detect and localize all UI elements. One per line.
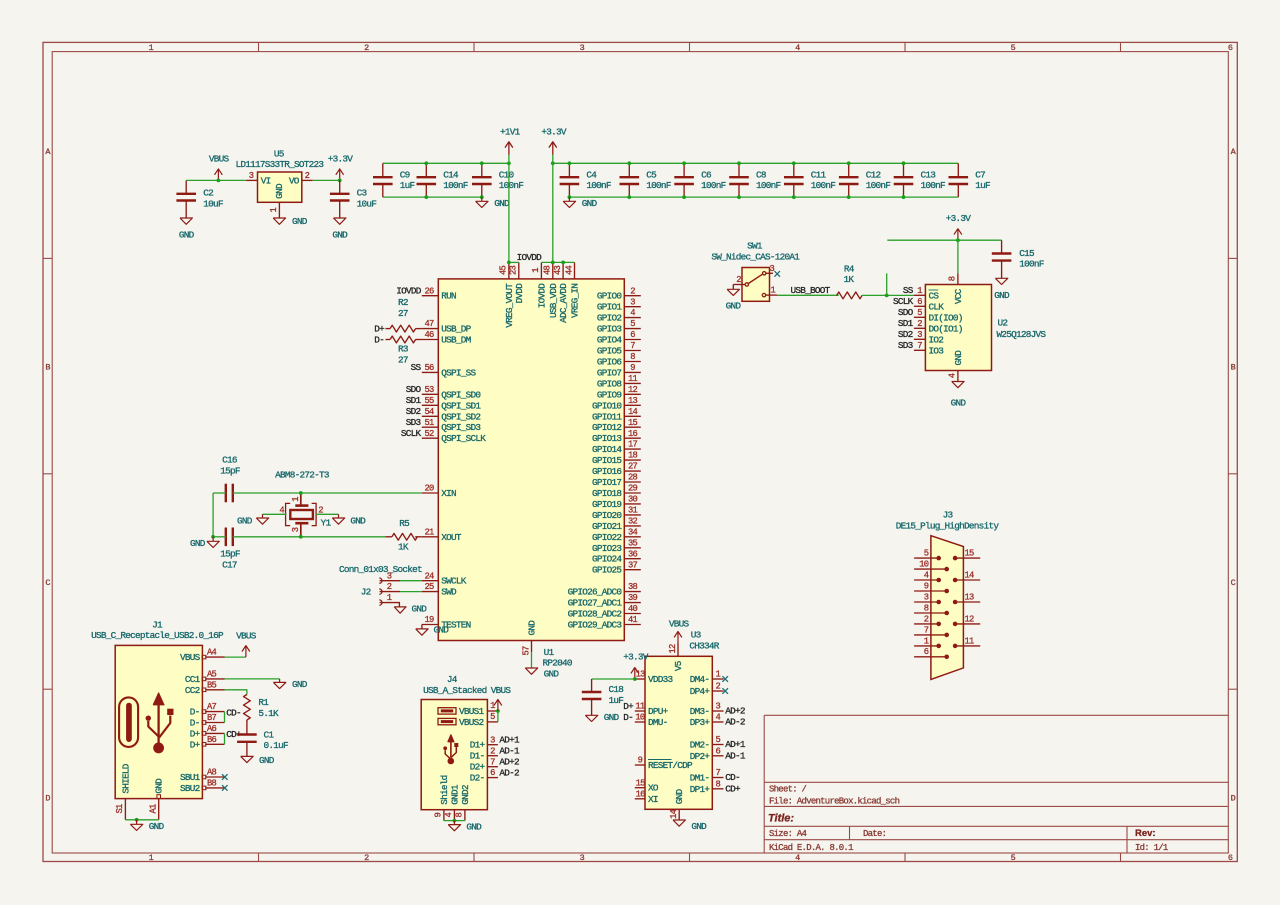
svg-text:Title:: Title: bbox=[768, 813, 794, 825]
pin 9 U3 RESET/CDP bbox=[635, 756, 693, 771]
ground TESTEN bbox=[416, 625, 450, 636]
svg-text:4: 4 bbox=[795, 853, 800, 863]
svg-text:SBU1: SBU1 bbox=[180, 772, 201, 783]
pin 31 U1 GPIO20 bbox=[592, 506, 641, 521]
pin 2 SW1 bbox=[733, 275, 745, 289]
svg-text:GPIO7: GPIO7 bbox=[597, 367, 622, 378]
svg-text:1K: 1K bbox=[844, 274, 855, 285]
usb plug icon 1 bbox=[438, 708, 456, 714]
ground SW1 bbox=[726, 289, 742, 311]
pin 12 U3 V5 bbox=[668, 643, 684, 671]
svg-text:CLK: CLK bbox=[929, 301, 945, 312]
column labels bbox=[149, 43, 1233, 863]
no-connect bbox=[722, 676, 728, 682]
svg-text:DE15_Plug_HighDensity: DE15_Plug_HighDensity bbox=[896, 521, 1000, 532]
ground U1 bbox=[525, 668, 559, 680]
pin 26 U1 RUN bbox=[422, 286, 456, 301]
svg-text:DPU+: DPU+ bbox=[648, 706, 669, 717]
wire bbox=[315, 513, 338, 515]
svg-text:SW1: SW1 bbox=[747, 240, 763, 251]
svg-text:43: 43 bbox=[553, 266, 563, 276]
junction bbox=[956, 238, 960, 242]
svg-text:J2: J2 bbox=[361, 586, 371, 597]
svg-text:SHIELD: SHIELD bbox=[120, 763, 131, 793]
power VBUS bbox=[491, 685, 512, 711]
pin 14 U3 GND bbox=[669, 789, 685, 820]
capacitor C1 bbox=[237, 729, 288, 756]
svg-text:1uF: 1uF bbox=[400, 180, 415, 191]
junction bbox=[507, 261, 511, 265]
connector J4 USB_A_Stacked body bbox=[421, 700, 487, 810]
junction bbox=[211, 535, 215, 539]
pin 9 J4 Shield bbox=[434, 775, 450, 820]
svg-text:Y1: Y1 bbox=[321, 517, 332, 528]
svg-text:U5: U5 bbox=[274, 148, 285, 159]
pin 15 U1 GPIO12 bbox=[592, 418, 641, 433]
svg-text:2: 2 bbox=[364, 43, 369, 53]
svg-text:IOVDD: IOVDD bbox=[517, 252, 543, 263]
pin 4 Y1 bbox=[279, 505, 284, 515]
column ticks bbox=[259, 42, 1121, 861]
pin A8 J1 SBU1 bbox=[180, 768, 225, 783]
usb trident icon J1 bbox=[146, 693, 174, 754]
svg-text:4: 4 bbox=[444, 812, 454, 817]
lead C8 bbox=[738, 163, 740, 197]
svg-text:IOVDD: IOVDD bbox=[536, 283, 547, 309]
row labels bbox=[45, 147, 1236, 804]
svg-text:GND: GND bbox=[994, 290, 1010, 301]
svg-text:1: 1 bbox=[291, 497, 301, 502]
svg-text:J1: J1 bbox=[152, 619, 163, 630]
svg-text:GPIO20: GPIO20 bbox=[592, 510, 622, 521]
svg-text:12: 12 bbox=[668, 644, 678, 654]
pin 6 J4 D2- bbox=[470, 768, 498, 783]
lead C14 bbox=[425, 163, 427, 197]
svg-text:Date:: Date: bbox=[863, 829, 886, 839]
pin 2 J4 D1- bbox=[470, 746, 498, 761]
no-connect bbox=[774, 271, 780, 277]
svg-text:5: 5 bbox=[716, 735, 721, 745]
svg-text:DP2+: DP2+ bbox=[690, 751, 711, 762]
pin 57 U1 GND bbox=[521, 620, 537, 656]
svg-text:C9: C9 bbox=[400, 169, 410, 180]
pin 13 J3 bbox=[953, 592, 980, 604]
svg-text:GND: GND bbox=[674, 789, 685, 805]
pin 55 U1 QSPI_SD1 bbox=[422, 396, 482, 411]
svg-text:VO: VO bbox=[289, 175, 300, 186]
svg-text:8: 8 bbox=[716, 779, 721, 789]
svg-text:GPIO3: GPIO3 bbox=[597, 324, 623, 335]
svg-text:27: 27 bbox=[628, 462, 638, 472]
J4 reference labels bbox=[423, 674, 487, 696]
capacitor C5 bbox=[620, 169, 671, 191]
svg-text:SS: SS bbox=[411, 362, 422, 373]
svg-text:SD1: SD1 bbox=[898, 318, 914, 329]
pin 48 U1 USB_VDD bbox=[543, 262, 559, 318]
svg-text:GND: GND bbox=[274, 183, 285, 199]
svg-text:100nF: 100nF bbox=[811, 180, 836, 191]
svg-text:37: 37 bbox=[628, 560, 638, 570]
pin 9 J3 bbox=[914, 581, 949, 593]
svg-text:28: 28 bbox=[628, 473, 638, 483]
usb-c icon bbox=[119, 697, 138, 747]
pin 15 J3 bbox=[953, 549, 980, 561]
junction bbox=[627, 195, 631, 199]
svg-text:GPIO13: GPIO13 bbox=[592, 433, 622, 444]
svg-text:100nF: 100nF bbox=[646, 180, 671, 191]
U3 reference labels bbox=[689, 630, 719, 652]
junction bbox=[885, 294, 889, 298]
pin 19 U1 TESTEN bbox=[422, 615, 471, 630]
pin 7 J4 D2+ bbox=[470, 757, 498, 772]
pin 20 U1 XIN bbox=[422, 484, 456, 499]
svg-text:GND: GND bbox=[412, 604, 428, 615]
pin 3 U2 IO2 bbox=[914, 330, 943, 345]
wire IOVDD USB_VDD ADC_AVDD VREG_IN bbox=[541, 261, 574, 263]
svg-text:3: 3 bbox=[291, 527, 301, 532]
pin 35 U1 GPIO23 bbox=[592, 538, 641, 553]
pin 29 U1 GPIO18 bbox=[592, 484, 641, 499]
svg-text:DMU-: DMU- bbox=[648, 717, 668, 728]
svg-text:1: 1 bbox=[716, 670, 721, 680]
pin 8 J4 GND2 bbox=[455, 785, 471, 821]
pin 7 U2 IO3 bbox=[914, 341, 944, 356]
svg-text:6: 6 bbox=[917, 297, 922, 307]
wire VREG_VOUT DVDD bbox=[509, 261, 519, 263]
pin 2 U2 DO(IO1) bbox=[914, 319, 963, 334]
ground U2 bbox=[951, 382, 967, 409]
svg-text:+3.3V: +3.3V bbox=[623, 652, 649, 663]
pin 37 U1 GPIO25 bbox=[592, 560, 641, 575]
wire bbox=[313, 179, 340, 181]
svg-text:XI: XI bbox=[648, 794, 658, 805]
svg-text:R2: R2 bbox=[398, 297, 408, 308]
connector J2 Conn_01x03_Socket bbox=[339, 564, 422, 597]
svg-text:DM1-: DM1- bbox=[690, 773, 710, 784]
wire SWD bbox=[400, 591, 422, 593]
pin 39 U1 GPIO27_ADC1 bbox=[568, 593, 641, 608]
junction bbox=[551, 261, 555, 265]
svg-text:C1: C1 bbox=[264, 729, 275, 740]
pin 1 U3 DM4- bbox=[690, 670, 724, 685]
svg-text:GPIO29_ADC3: GPIO29_ADC3 bbox=[568, 620, 623, 631]
junction bbox=[424, 161, 428, 165]
pin 27 U1 GPIO16 bbox=[592, 462, 641, 477]
pin 14 J3 bbox=[953, 570, 980, 582]
svg-text:USB_DM: USB_DM bbox=[441, 335, 471, 346]
svg-text:SD2: SD2 bbox=[898, 329, 913, 340]
svg-text:GPIO26_ADC0: GPIO26_ADC0 bbox=[568, 587, 623, 598]
svg-text:GND: GND bbox=[259, 755, 275, 766]
svg-text:56: 56 bbox=[424, 363, 434, 373]
svg-text:1: 1 bbox=[771, 286, 776, 296]
junction bbox=[135, 818, 139, 822]
svg-text:100nF: 100nF bbox=[443, 180, 468, 191]
pin 28 U1 GPIO17 bbox=[592, 473, 641, 488]
ground C2 bbox=[179, 218, 195, 241]
svg-text:GND: GND bbox=[527, 620, 538, 636]
pin 44 U1 VREG_IN bbox=[564, 262, 580, 318]
svg-text:C14: C14 bbox=[443, 169, 459, 180]
svg-text:19: 19 bbox=[424, 615, 434, 625]
wire J4 gnd bbox=[444, 820, 465, 822]
wire SWCLK bbox=[400, 580, 422, 582]
svg-text:7: 7 bbox=[490, 757, 495, 767]
svg-text:9: 9 bbox=[434, 812, 444, 817]
pin 51 U1 QSPI_SD3 bbox=[422, 418, 482, 433]
svg-text:IO2: IO2 bbox=[929, 334, 944, 345]
wire VCC U2 bbox=[957, 240, 959, 273]
svg-text:VBUS: VBUS bbox=[669, 619, 690, 630]
row ticks bbox=[43, 258, 1237, 689]
svg-text:GND: GND bbox=[953, 350, 964, 366]
pin 3 Y1 bbox=[291, 523, 301, 537]
svg-text:C16: C16 bbox=[222, 455, 238, 466]
svg-text:41: 41 bbox=[628, 615, 638, 625]
lead C6 bbox=[683, 163, 685, 197]
junction bbox=[847, 195, 851, 199]
svg-text:7: 7 bbox=[630, 341, 635, 351]
svg-text:A7: A7 bbox=[207, 702, 217, 712]
svg-text:AD+1: AD+1 bbox=[499, 735, 520, 746]
svg-text:D1-: D1- bbox=[470, 751, 485, 762]
svg-text:D-: D- bbox=[190, 707, 200, 718]
svg-text:DI(IO0): DI(IO0) bbox=[929, 312, 963, 323]
svg-text:QSPI_SD3: QSPI_SD3 bbox=[441, 422, 481, 433]
pin 17 U1 GPIO14 bbox=[592, 440, 641, 455]
title block bbox=[764, 715, 1228, 853]
svg-text:B: B bbox=[45, 362, 50, 372]
junction bbox=[737, 161, 741, 165]
svg-text:VDD33: VDD33 bbox=[648, 674, 674, 685]
wire bbox=[186, 179, 246, 181]
svg-text:6: 6 bbox=[490, 768, 495, 778]
svg-text:S1: S1 bbox=[115, 804, 125, 814]
svg-text:D-: D- bbox=[374, 334, 384, 345]
svg-text:U1: U1 bbox=[544, 647, 555, 658]
junction bbox=[682, 161, 686, 165]
svg-text:C17: C17 bbox=[222, 560, 237, 571]
svg-text:USB_BOOT: USB_BOOT bbox=[791, 285, 831, 296]
svg-text:5.1K: 5.1K bbox=[258, 708, 279, 719]
pin 21 U1 XOUT bbox=[422, 527, 462, 542]
svg-text:A4: A4 bbox=[207, 648, 217, 658]
ground J1 bbox=[130, 820, 164, 832]
svg-text:GND: GND bbox=[604, 712, 620, 723]
svg-text:Shield: Shield bbox=[439, 775, 450, 804]
pin 8 U2 VCC bbox=[948, 273, 964, 304]
svg-text:U2: U2 bbox=[998, 317, 1008, 328]
ground bbox=[273, 679, 307, 690]
connector J1 USB_C_Receptacle_USB2.0_16P body bbox=[115, 645, 202, 798]
ground U5 bbox=[273, 216, 308, 227]
pin 3 J2 bbox=[379, 571, 400, 583]
svg-text:USB_C_Receptacle_USB2.0_16P: USB_C_Receptacle_USB2.0_16P bbox=[91, 630, 224, 641]
svg-text:CC1: CC1 bbox=[185, 674, 201, 685]
svg-text:C4: C4 bbox=[586, 169, 597, 180]
svg-text:VI: VI bbox=[261, 175, 271, 186]
pin 7 U3 DM1- bbox=[690, 768, 724, 783]
svg-text:GPIO2: GPIO2 bbox=[597, 313, 622, 324]
svg-text:6: 6 bbox=[630, 330, 635, 340]
svg-text:47: 47 bbox=[424, 319, 434, 329]
svg-text:40: 40 bbox=[628, 604, 638, 614]
svg-text:3: 3 bbox=[630, 297, 635, 307]
svg-text:46: 46 bbox=[424, 330, 434, 340]
power VBUS bbox=[209, 153, 230, 180]
svg-text:3: 3 bbox=[490, 735, 495, 745]
svg-text:C13: C13 bbox=[921, 169, 937, 180]
capacitor C4 bbox=[560, 169, 611, 191]
pin 8 U3 DP1+ bbox=[690, 779, 724, 794]
power VBUS bbox=[236, 630, 257, 657]
svg-text:QSPI_SS: QSPI_SS bbox=[441, 367, 476, 378]
capacitor C11 bbox=[784, 169, 835, 191]
svg-text:IOVDD: IOVDD bbox=[396, 285, 422, 296]
svg-text:GND: GND bbox=[190, 538, 206, 549]
svg-text:25: 25 bbox=[424, 582, 434, 592]
wire VBUS J1 bbox=[225, 656, 246, 658]
svg-text:14: 14 bbox=[965, 570, 975, 580]
svg-text:C6: C6 bbox=[701, 169, 712, 180]
pin 43 U1 ADC_AVDD bbox=[553, 262, 569, 323]
pin B6 J1 D+ bbox=[190, 735, 225, 750]
pin 6 J3 bbox=[914, 647, 949, 659]
flash U2 W25Q128JVS body bbox=[925, 285, 991, 371]
svg-text:VBUS: VBUS bbox=[209, 153, 230, 164]
pin 16 U1 GPIO13 bbox=[592, 429, 641, 444]
lead C13 bbox=[903, 163, 905, 197]
svg-text:3: 3 bbox=[924, 592, 929, 602]
svg-text:VBUS2: VBUS2 bbox=[459, 717, 484, 728]
no-connect bbox=[722, 688, 728, 694]
svg-text:Rev:: Rev: bbox=[1135, 828, 1156, 839]
svg-text:RP2040: RP2040 bbox=[543, 658, 573, 669]
wire CC1 to ground bbox=[225, 678, 280, 680]
svg-text:CH334R: CH334R bbox=[689, 640, 719, 651]
power +3.3V bbox=[541, 126, 567, 154]
ground C15 bbox=[994, 278, 1010, 301]
svg-text:4: 4 bbox=[630, 308, 635, 318]
pin 11 U3 DPU+ bbox=[635, 702, 669, 717]
junction bbox=[299, 535, 303, 539]
svg-text:0.1uF: 0.1uF bbox=[264, 740, 289, 751]
svg-text:12: 12 bbox=[628, 385, 638, 395]
svg-text:SD3: SD3 bbox=[898, 340, 914, 351]
svg-text:D+: D+ bbox=[190, 728, 201, 739]
svg-text:B5: B5 bbox=[207, 680, 217, 690]
svg-text:GND: GND bbox=[951, 398, 967, 409]
pin 12 U1 GPIO9 bbox=[597, 385, 641, 400]
pin A1 J1 GND bbox=[149, 778, 165, 820]
pin 1 U2 CS bbox=[914, 286, 939, 301]
pin 12 J3 bbox=[953, 614, 980, 626]
svg-text:GPIO23: GPIO23 bbox=[592, 543, 622, 554]
svg-text:C3: C3 bbox=[357, 188, 368, 199]
pin 3 U3 DM3- bbox=[690, 702, 724, 717]
svg-text:3: 3 bbox=[249, 171, 254, 181]
svg-text:VBUS: VBUS bbox=[180, 652, 201, 663]
svg-text:QSPI_SD1: QSPI_SD1 bbox=[441, 400, 481, 411]
svg-text:A8: A8 bbox=[207, 768, 217, 778]
svg-text:B8: B8 bbox=[207, 779, 217, 789]
pin 10 J3 bbox=[914, 560, 949, 572]
pin 52 U1 QSPI_SCLK bbox=[422, 429, 487, 444]
svg-text:GPIO0: GPIO0 bbox=[597, 291, 623, 302]
svg-text:2: 2 bbox=[387, 582, 392, 592]
svg-text:5: 5 bbox=[924, 549, 929, 559]
wire J1 shield gnd bbox=[125, 819, 158, 821]
resistor R4 bbox=[837, 264, 863, 299]
svg-text:7: 7 bbox=[716, 768, 721, 778]
svg-text:R1: R1 bbox=[258, 697, 269, 708]
svg-text:GPIO8: GPIO8 bbox=[597, 378, 623, 389]
ground C1 bbox=[241, 755, 275, 766]
lead C7 bbox=[957, 163, 959, 197]
svg-text:3: 3 bbox=[917, 330, 922, 340]
svg-text:10: 10 bbox=[919, 560, 929, 570]
svg-text:27: 27 bbox=[398, 308, 408, 319]
svg-text:R4: R4 bbox=[844, 264, 855, 275]
pin 25 U1 SWD bbox=[422, 582, 457, 597]
svg-text:3: 3 bbox=[580, 43, 585, 53]
capacitor C12 bbox=[839, 169, 890, 191]
svg-text:100nF: 100nF bbox=[921, 180, 946, 191]
wire tie D+ pair bbox=[224, 733, 226, 744]
pin 38 U1 GPIO26_ADC0 bbox=[568, 582, 641, 597]
svg-text:27: 27 bbox=[398, 355, 408, 366]
svg-text:5: 5 bbox=[490, 712, 495, 722]
svg-text:C: C bbox=[45, 578, 50, 588]
capacitor C18 bbox=[582, 679, 624, 715]
junction bbox=[792, 161, 796, 165]
svg-text:VREG_IN: VREG_IN bbox=[570, 284, 581, 318]
svg-text:20: 20 bbox=[424, 484, 434, 494]
svg-text:10uF: 10uF bbox=[357, 198, 377, 209]
pin 4 U3 DP3+ bbox=[690, 713, 724, 728]
pin 6 U3 DP2+ bbox=[690, 746, 724, 761]
svg-text:GND1: GND1 bbox=[449, 784, 460, 805]
svg-text:GPIO21: GPIO21 bbox=[592, 521, 622, 532]
junction bbox=[568, 195, 572, 199]
svg-text:1: 1 bbox=[924, 636, 929, 646]
junction bbox=[338, 179, 342, 183]
svg-text:1uF: 1uF bbox=[975, 180, 990, 191]
wire U1 GND bbox=[531, 652, 533, 668]
svg-text:Conn_01x03_Socket: Conn_01x03_Socket bbox=[339, 564, 422, 575]
wire CC2 to R1 bbox=[225, 690, 247, 695]
svg-text:15: 15 bbox=[636, 778, 646, 788]
svg-text:J3: J3 bbox=[943, 510, 954, 521]
svg-text:GPIO10: GPIO10 bbox=[592, 400, 622, 411]
svg-text:14: 14 bbox=[628, 407, 638, 417]
pin 4 U1 GPIO2 bbox=[597, 308, 641, 323]
svg-text:GND: GND bbox=[292, 216, 308, 227]
power +1V1 bbox=[500, 126, 521, 154]
svg-text:SBU2: SBU2 bbox=[180, 783, 200, 794]
pin 56 U1 QSPI_SS bbox=[422, 363, 477, 378]
svg-text:+3.3V: +3.3V bbox=[328, 153, 354, 164]
svg-text:100nF: 100nF bbox=[701, 180, 726, 191]
svg-text:GND: GND bbox=[179, 230, 195, 241]
svg-text:SD1: SD1 bbox=[406, 395, 422, 406]
pin 32 U1 GPIO21 bbox=[592, 517, 641, 532]
svg-text:13: 13 bbox=[965, 592, 975, 602]
svg-text:GND: GND bbox=[494, 198, 510, 209]
svg-text:100nF: 100nF bbox=[756, 180, 781, 191]
svg-text:CC2: CC2 bbox=[185, 685, 200, 696]
pin 18 U1 GPIO15 bbox=[592, 451, 641, 466]
